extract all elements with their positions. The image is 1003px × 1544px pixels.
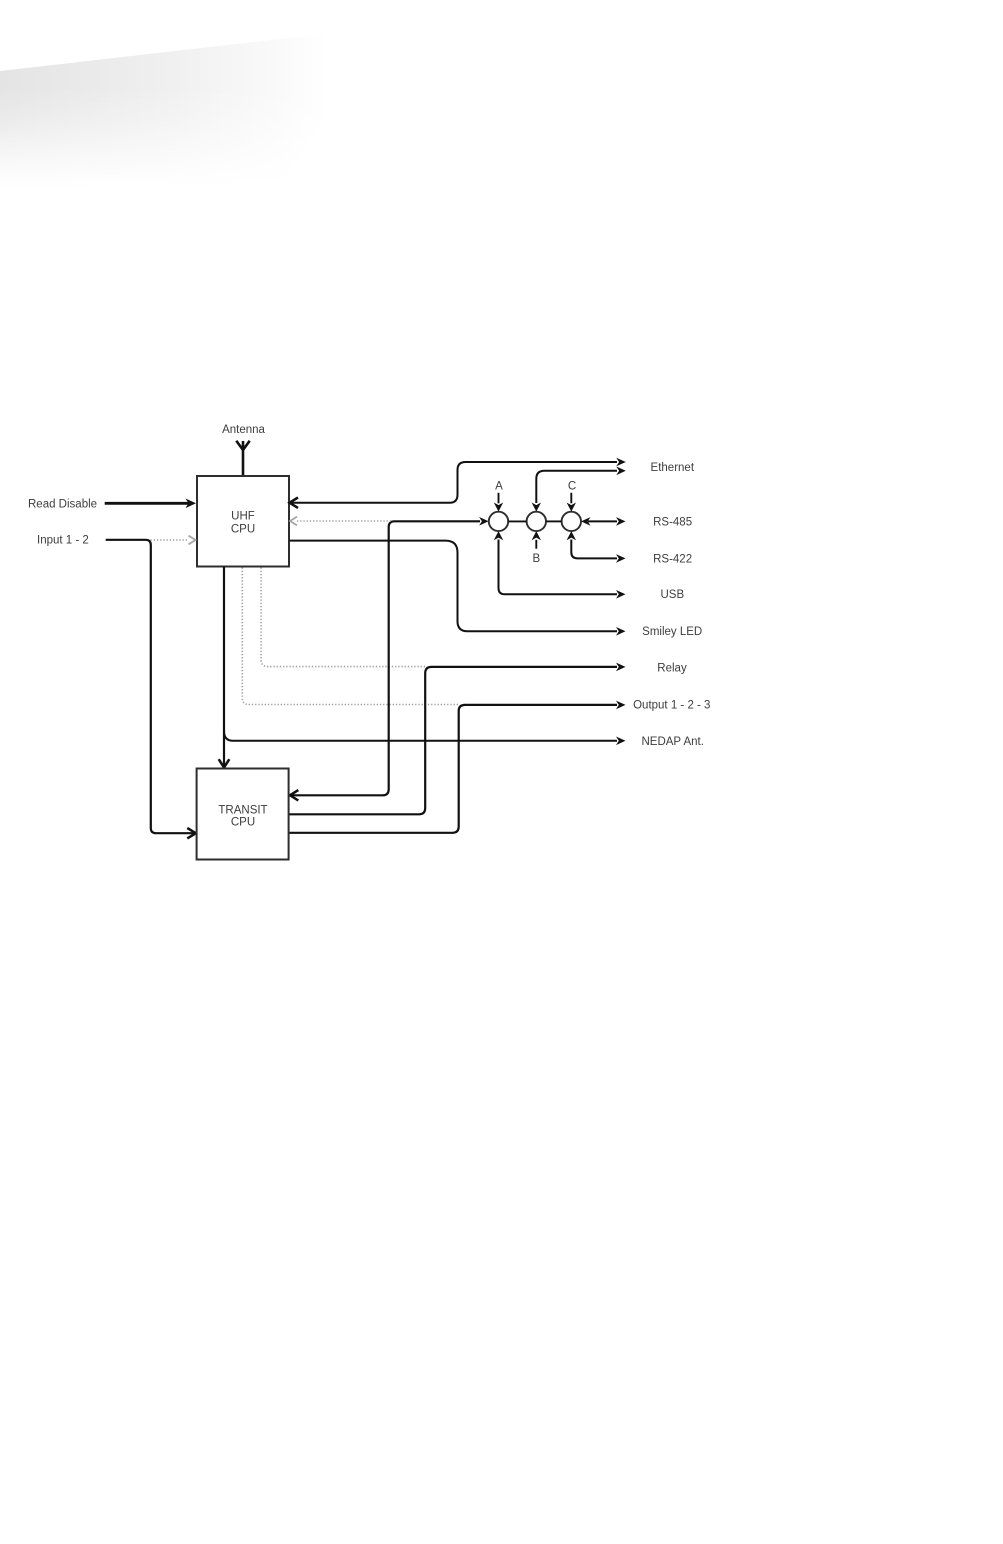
svg-text:Relay: Relay [657, 663, 687, 675]
wire USB <-> A [499, 540, 618, 595]
wire dotted UHF -> Relay (grey) [261, 568, 427, 667]
UHF CPU box U1 [197, 476, 289, 567]
node C [562, 512, 581, 531]
wire RS-485 <-> C [588, 520, 617, 522]
wire C stub from label [570, 493, 572, 504]
wire UHF -> TRANSIT vertical [223, 567, 225, 767]
TRANSIT CPU box U2 [197, 769, 289, 860]
svg-text:TRANSIT: TRANSIT [218, 804, 267, 816]
svg-text:Read Disable: Read Disable [28, 498, 97, 510]
wire Input solid -> TRANSIT [106, 540, 194, 833]
wire node B-C [546, 520, 562, 522]
wire TRANSIT -> Output 1-2-3 [290, 705, 618, 833]
svg-text:Smiley LED: Smiley LED [642, 626, 702, 638]
wire RS-485 bus -> circle A and TRANSIT [292, 521, 481, 795]
wire node A-B [508, 520, 526, 522]
wire B stub from label [535, 540, 537, 549]
svg-text:CPU: CPU [231, 524, 255, 536]
node A [489, 512, 508, 531]
wire Input dotted -> UHF (grey) [106, 539, 188, 541]
svg-text:RS-422: RS-422 [653, 553, 692, 565]
wire Read Disable -> UHF [105, 502, 190, 505]
svg-text:UHF: UHF [231, 511, 255, 523]
wire TRANSIT -> Relay [290, 667, 618, 814]
svg-text:Ethernet: Ethernet [651, 462, 695, 474]
svg-text:RS-485: RS-485 [653, 516, 692, 528]
antenna symbol [236, 441, 249, 476]
node B [527, 512, 546, 531]
wire Ethernet <-> node B [536, 471, 617, 503]
svg-text:Output 1 - 2 - 3: Output 1 - 2 - 3 [633, 700, 710, 712]
svg-text:NEDAP Ant.: NEDAP Ant. [641, 736, 703, 748]
svg-text:C: C [568, 480, 576, 492]
wire dotted UHF -> Output (grey) [242, 568, 458, 705]
svg-text:CPU: CPU [231, 817, 255, 829]
wire RS-422 <-> C [571, 540, 617, 559]
wire UHF -> Smiley LED [290, 541, 618, 632]
decorative header swoosh [0, 27, 385, 600]
svg-text:USB: USB [660, 589, 684, 601]
svg-text:B: B [532, 553, 540, 565]
svg-text:Input 1 - 2: Input 1 - 2 [37, 535, 89, 547]
wire Ethernet <-> UHF [291, 462, 617, 503]
wire A stub from label [498, 493, 500, 504]
svg-text:Antenna: Antenna [222, 424, 265, 436]
wire dotted RS-485 -> UHF (grey) [297, 520, 392, 522]
svg-text:A: A [495, 480, 503, 492]
wire NEDAP Ant. branch [224, 731, 617, 741]
